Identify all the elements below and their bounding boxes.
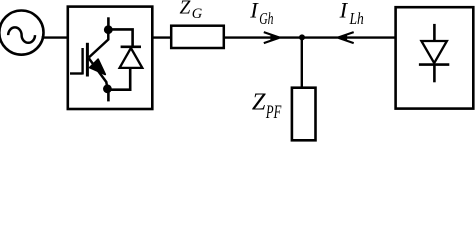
impedance ZPF box [292, 88, 316, 141]
diode D1 triangle (anode up) [120, 48, 143, 68]
diode D2 cathode lead [433, 65, 436, 83]
wire source to converter [42, 36, 68, 38]
converter box [68, 7, 153, 109]
wire converter to ZG [152, 36, 171, 38]
wire bottom link diode to emitter [107, 68, 130, 90]
IGBT Q1 body bar [86, 43, 89, 77]
diode D2 cathode bar [419, 63, 449, 66]
svg-text:Z: Z [180, 0, 191, 19]
AC source VS circle [0, 10, 44, 54]
diode D2 triangle (pointing down) [421, 41, 447, 63]
node: top junction dot [104, 25, 113, 34]
svg-text:Gh: Gh [259, 9, 273, 28]
node: bottom junction dot [103, 84, 112, 93]
arrow IGh (right) [264, 32, 280, 43]
diode D2 anode lead [433, 24, 436, 41]
IGBT emitter stub [107, 89, 110, 102]
svg-text:G: G [192, 6, 203, 22]
load box [396, 7, 474, 108]
AC source sine wave [8, 27, 35, 42]
IGBT Q1 emitter arrow [90, 59, 106, 74]
wire node to load [302, 36, 396, 38]
svg-text:I: I [339, 0, 349, 23]
impedance ZG box [171, 26, 224, 48]
svg-text:Z: Z [252, 89, 266, 116]
diode D1 cathode bar [121, 45, 141, 48]
arrow ILh (left) [338, 32, 354, 43]
IGBT Q1 collector diagonal [89, 30, 109, 58]
svg-text:Lh: Lh [349, 9, 364, 28]
wire node to ZPF [301, 38, 303, 88]
wire ZG to node [224, 36, 302, 38]
IGBT Q1 emitter diagonal [89, 58, 108, 88]
IGBT Q1 gate lead [70, 72, 83, 74]
node junction dot [299, 34, 305, 40]
IGBT Q1 gate bar [81, 48, 83, 75]
svg-text:I: I [249, 0, 259, 23]
IGBT collector stub [107, 17, 110, 29]
wire top link to diode [108, 29, 132, 46]
svg-text:PF: PF [265, 102, 281, 123]
